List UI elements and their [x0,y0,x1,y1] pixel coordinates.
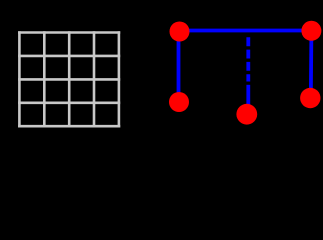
node top-left [170,22,190,42]
grid horizontal line 4 [18,102,120,105]
node top-right [301,21,321,41]
edges [179,31,312,115]
grid horizontal line 3 [18,78,120,81]
grid [18,31,120,127]
edge middle solid lower part [246,85,250,114]
edge left vertical [177,32,181,103]
node bottom-right [300,88,320,108]
grid horizontal line 5 [18,125,120,128]
edge top horizontal [180,29,312,33]
grid horizontal line 1 [18,31,120,34]
grid vertical line 3 [68,31,71,127]
node bottom-middle [236,104,257,125]
edge right vertical [309,31,313,98]
grid vertical line 4 [93,31,96,127]
node bottom-left [169,92,189,112]
grid horizontal line 2 [18,55,120,58]
edge middle dashed [246,37,250,81]
grid vertical line 2 [43,31,46,127]
nodes [169,21,321,125]
grid vertical line 1 [18,31,21,127]
grid vertical line 5 [118,31,121,127]
